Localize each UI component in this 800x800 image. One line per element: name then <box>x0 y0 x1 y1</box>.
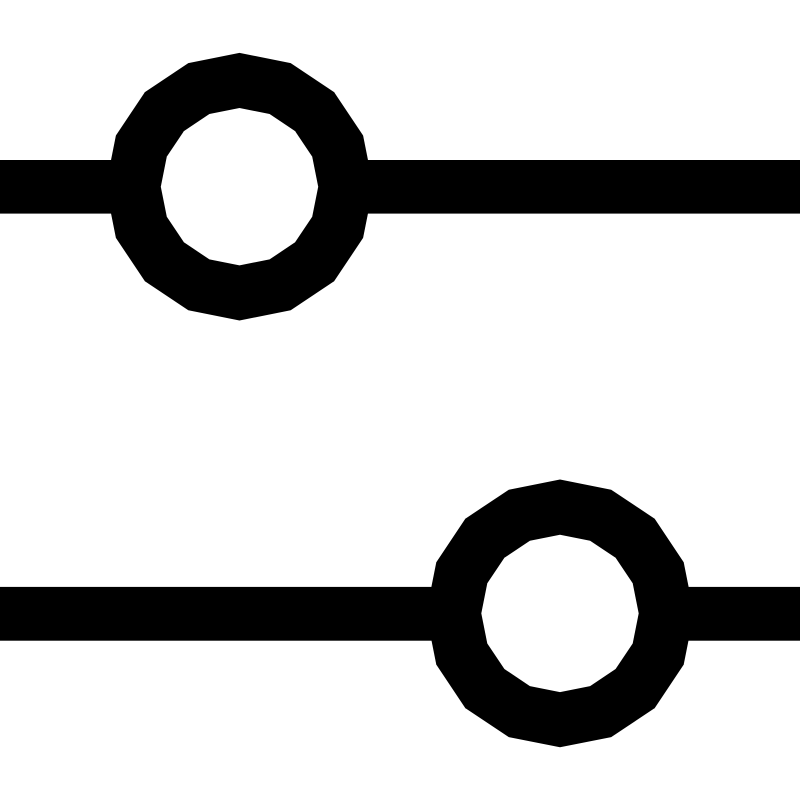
slider knob ring 2 inner hole (white 16-gon) <box>481 535 638 692</box>
slider knob ring 2 outer (16-gon) <box>426 480 694 748</box>
slider knob ring 1 outer (16-gon) <box>106 53 374 321</box>
slider knob ring 1 inner hole (white 16-gon) <box>161 108 318 265</box>
slider track 2 (bottom horizontal bar) <box>0 587 800 641</box>
slider track 1 (top horizontal bar) <box>0 160 800 214</box>
